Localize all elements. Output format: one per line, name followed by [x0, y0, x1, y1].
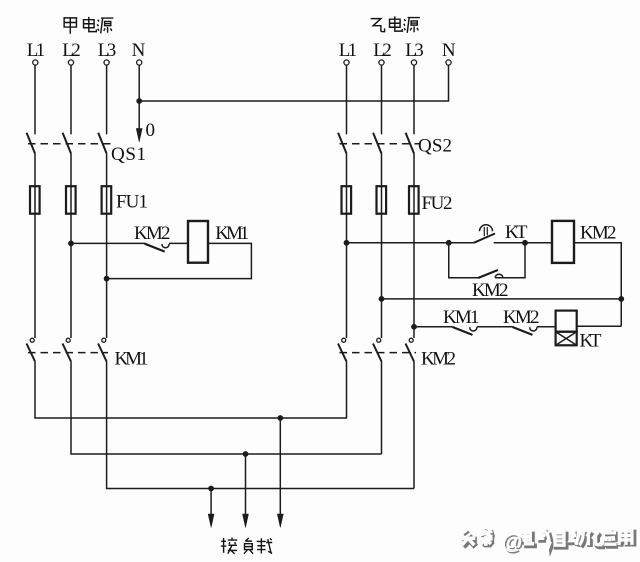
wire L1-A to load bus	[35, 362, 347, 419]
fuse FU1 pole 2	[66, 186, 76, 214]
KM1 linkage dashed line	[28, 352, 108, 354]
wire L3-B top	[413, 65, 415, 134]
wire L3-B to load bus	[413, 362, 415, 489]
wire L2-B mid	[381, 154, 383, 187]
svg-text:N: N	[442, 40, 456, 61]
KM2 linkage dashed line	[340, 352, 417, 354]
wire L3-A top	[106, 65, 108, 134]
svg-text:N: N	[132, 40, 146, 61]
fuse FU1 pole 1	[30, 186, 40, 214]
svg-text:KT: KT	[580, 331, 602, 352]
contact KM2 NC (normally closed)	[145, 244, 169, 252]
QS1 linkage dashed line	[28, 143, 112, 145]
wire N down to bus	[138, 65, 140, 101]
contact KT delayed close	[474, 225, 495, 243]
switch QS1 pole 2	[63, 133, 71, 154]
wire L3-A to load bus	[107, 362, 414, 489]
wire L2-B lower	[381, 214, 383, 338]
wire mid bus	[382, 298, 622, 300]
svg-text:KM1: KM1	[215, 223, 249, 244]
wire feed to KT contact	[347, 242, 474, 244]
node mid bus right	[618, 296, 624, 302]
wire self-hold branch	[449, 243, 525, 278]
wire L1-A mid	[34, 154, 36, 187]
svg-text:FU1: FU1	[116, 192, 148, 213]
wire L1-B lower	[346, 214, 348, 338]
wire contact to KT coil	[537, 326, 556, 328]
wire L2-A to load bus	[71, 362, 382, 455]
wire L2-A top	[70, 65, 72, 134]
svg-text:0: 0	[146, 120, 156, 141]
svg-text:KM2: KM2	[472, 280, 509, 301]
wire L1-A top	[34, 65, 36, 134]
fuse FU2 pole 2	[377, 186, 387, 214]
wire L1-B top	[346, 65, 348, 134]
wire L3-B mid	[413, 154, 415, 187]
switch QS2 pole 3	[406, 133, 414, 154]
node KM1 coil return on L3	[104, 276, 110, 282]
wire L3-A mid	[106, 154, 108, 187]
switch QS1 pole 3	[98, 133, 106, 154]
switch QS2 pole 1	[338, 133, 346, 154]
contactor KM1 main pole 3	[98, 338, 107, 361]
svg-text:QS1: QS1	[111, 144, 146, 165]
svg-text:KM1: KM1	[443, 307, 480, 328]
watermark 头条@电气自动化应用	[461, 530, 634, 547]
node mid bus on L2-B	[379, 296, 385, 302]
coil KT with delay element	[556, 311, 577, 346]
node parallel branch left	[446, 240, 452, 246]
wire KT row left	[414, 326, 453, 328]
node load bus 2	[243, 451, 249, 457]
svg-text:KM2: KM2	[503, 307, 540, 328]
label 甲电源 (source A title)	[64, 17, 113, 34]
wire to KM2 NC contact	[71, 242, 145, 244]
svg-text:L2: L2	[62, 40, 81, 61]
wire NC contact to coil KM1	[169, 242, 188, 244]
wire N bus horizontal	[139, 65, 448, 101]
node parallel branch right	[522, 240, 528, 246]
svg-text:L3: L3	[405, 40, 424, 61]
node KT coil feed on L3-B	[411, 324, 417, 330]
fuse FU1 pole 3	[102, 186, 112, 214]
node load bus 1	[277, 415, 283, 421]
wire between contacts	[477, 326, 513, 328]
node N bus junction	[136, 98, 142, 104]
svg-text:QS2: QS2	[418, 136, 452, 157]
wire KT contact to node	[494, 242, 525, 244]
contactor KM2 main pole 3	[406, 338, 415, 361]
svg-text:L1: L1	[339, 40, 358, 61]
contact KM1 NO	[453, 327, 477, 335]
svg-text:KM2: KM2	[580, 223, 617, 244]
svg-text:L3: L3	[98, 40, 117, 61]
contact KM2 NO self-hold	[478, 270, 503, 278]
contactor KM2 main pole 2	[373, 338, 382, 361]
contactor KM1 main pole 1	[27, 338, 36, 361]
svg-text:KM1: KM1	[115, 349, 149, 370]
wire L3-A lower	[106, 214, 108, 338]
wire node to KM2 coil	[525, 242, 552, 244]
wire KT coil return	[577, 325, 622, 327]
contactor KM2 main pole 1	[338, 338, 347, 361]
QS2 linkage dashed line	[340, 143, 420, 145]
switch QS1 pole 1	[27, 133, 35, 154]
wire L2-A lower	[70, 214, 72, 338]
contact KM2 NO	[513, 327, 537, 335]
terminal labels L1 L2 L3 N (source B)	[339, 40, 456, 61]
wire L2-A mid	[70, 154, 72, 187]
node KM1 coil feed	[68, 241, 74, 247]
wire KM2 coil return	[574, 243, 621, 326]
terminal circles source A	[33, 60, 142, 65]
svg-text:@: @	[502, 531, 522, 554]
svg-text:FU2: FU2	[422, 193, 453, 214]
wire L1-B to load bus	[346, 362, 348, 419]
svg-text:L1: L1	[27, 40, 46, 61]
svg-text:KT: KT	[505, 222, 528, 243]
wire L2-B top	[381, 65, 383, 134]
terminal circles source B	[344, 60, 451, 65]
node KM2 coil feed on L1-B	[344, 240, 350, 246]
wire KM1 coil return	[107, 243, 252, 278]
node load bus 3	[208, 486, 214, 492]
terminal labels L1 L2 L3 N (source A)	[27, 40, 146, 61]
svg-text:L2: L2	[373, 40, 392, 61]
fuse FU2 pole 3	[409, 186, 419, 214]
switch QS2 pole 2	[373, 133, 381, 154]
coil KM1	[188, 221, 208, 263]
svg-text:KM2: KM2	[421, 349, 456, 370]
wire L1-A lower	[34, 214, 36, 338]
wire L1-B mid	[346, 154, 348, 187]
wire L2-B to load bus	[381, 362, 383, 455]
arrow load 2	[243, 454, 249, 528]
contactor KM1 main pole 2	[63, 338, 72, 361]
coil KM2	[552, 221, 574, 263]
watermark @ sign	[502, 531, 524, 556]
arrow neutral 0	[136, 101, 142, 142]
label 乙电源 (source B title)	[371, 16, 420, 33]
svg-text:KM2: KM2	[134, 223, 171, 244]
label 接负载 (to load)	[221, 538, 272, 554]
wire L3-B lower	[413, 214, 415, 338]
fuse FU2 pole 1	[342, 186, 352, 214]
arrow load 3	[277, 418, 283, 528]
arrow load 1	[208, 489, 214, 528]
